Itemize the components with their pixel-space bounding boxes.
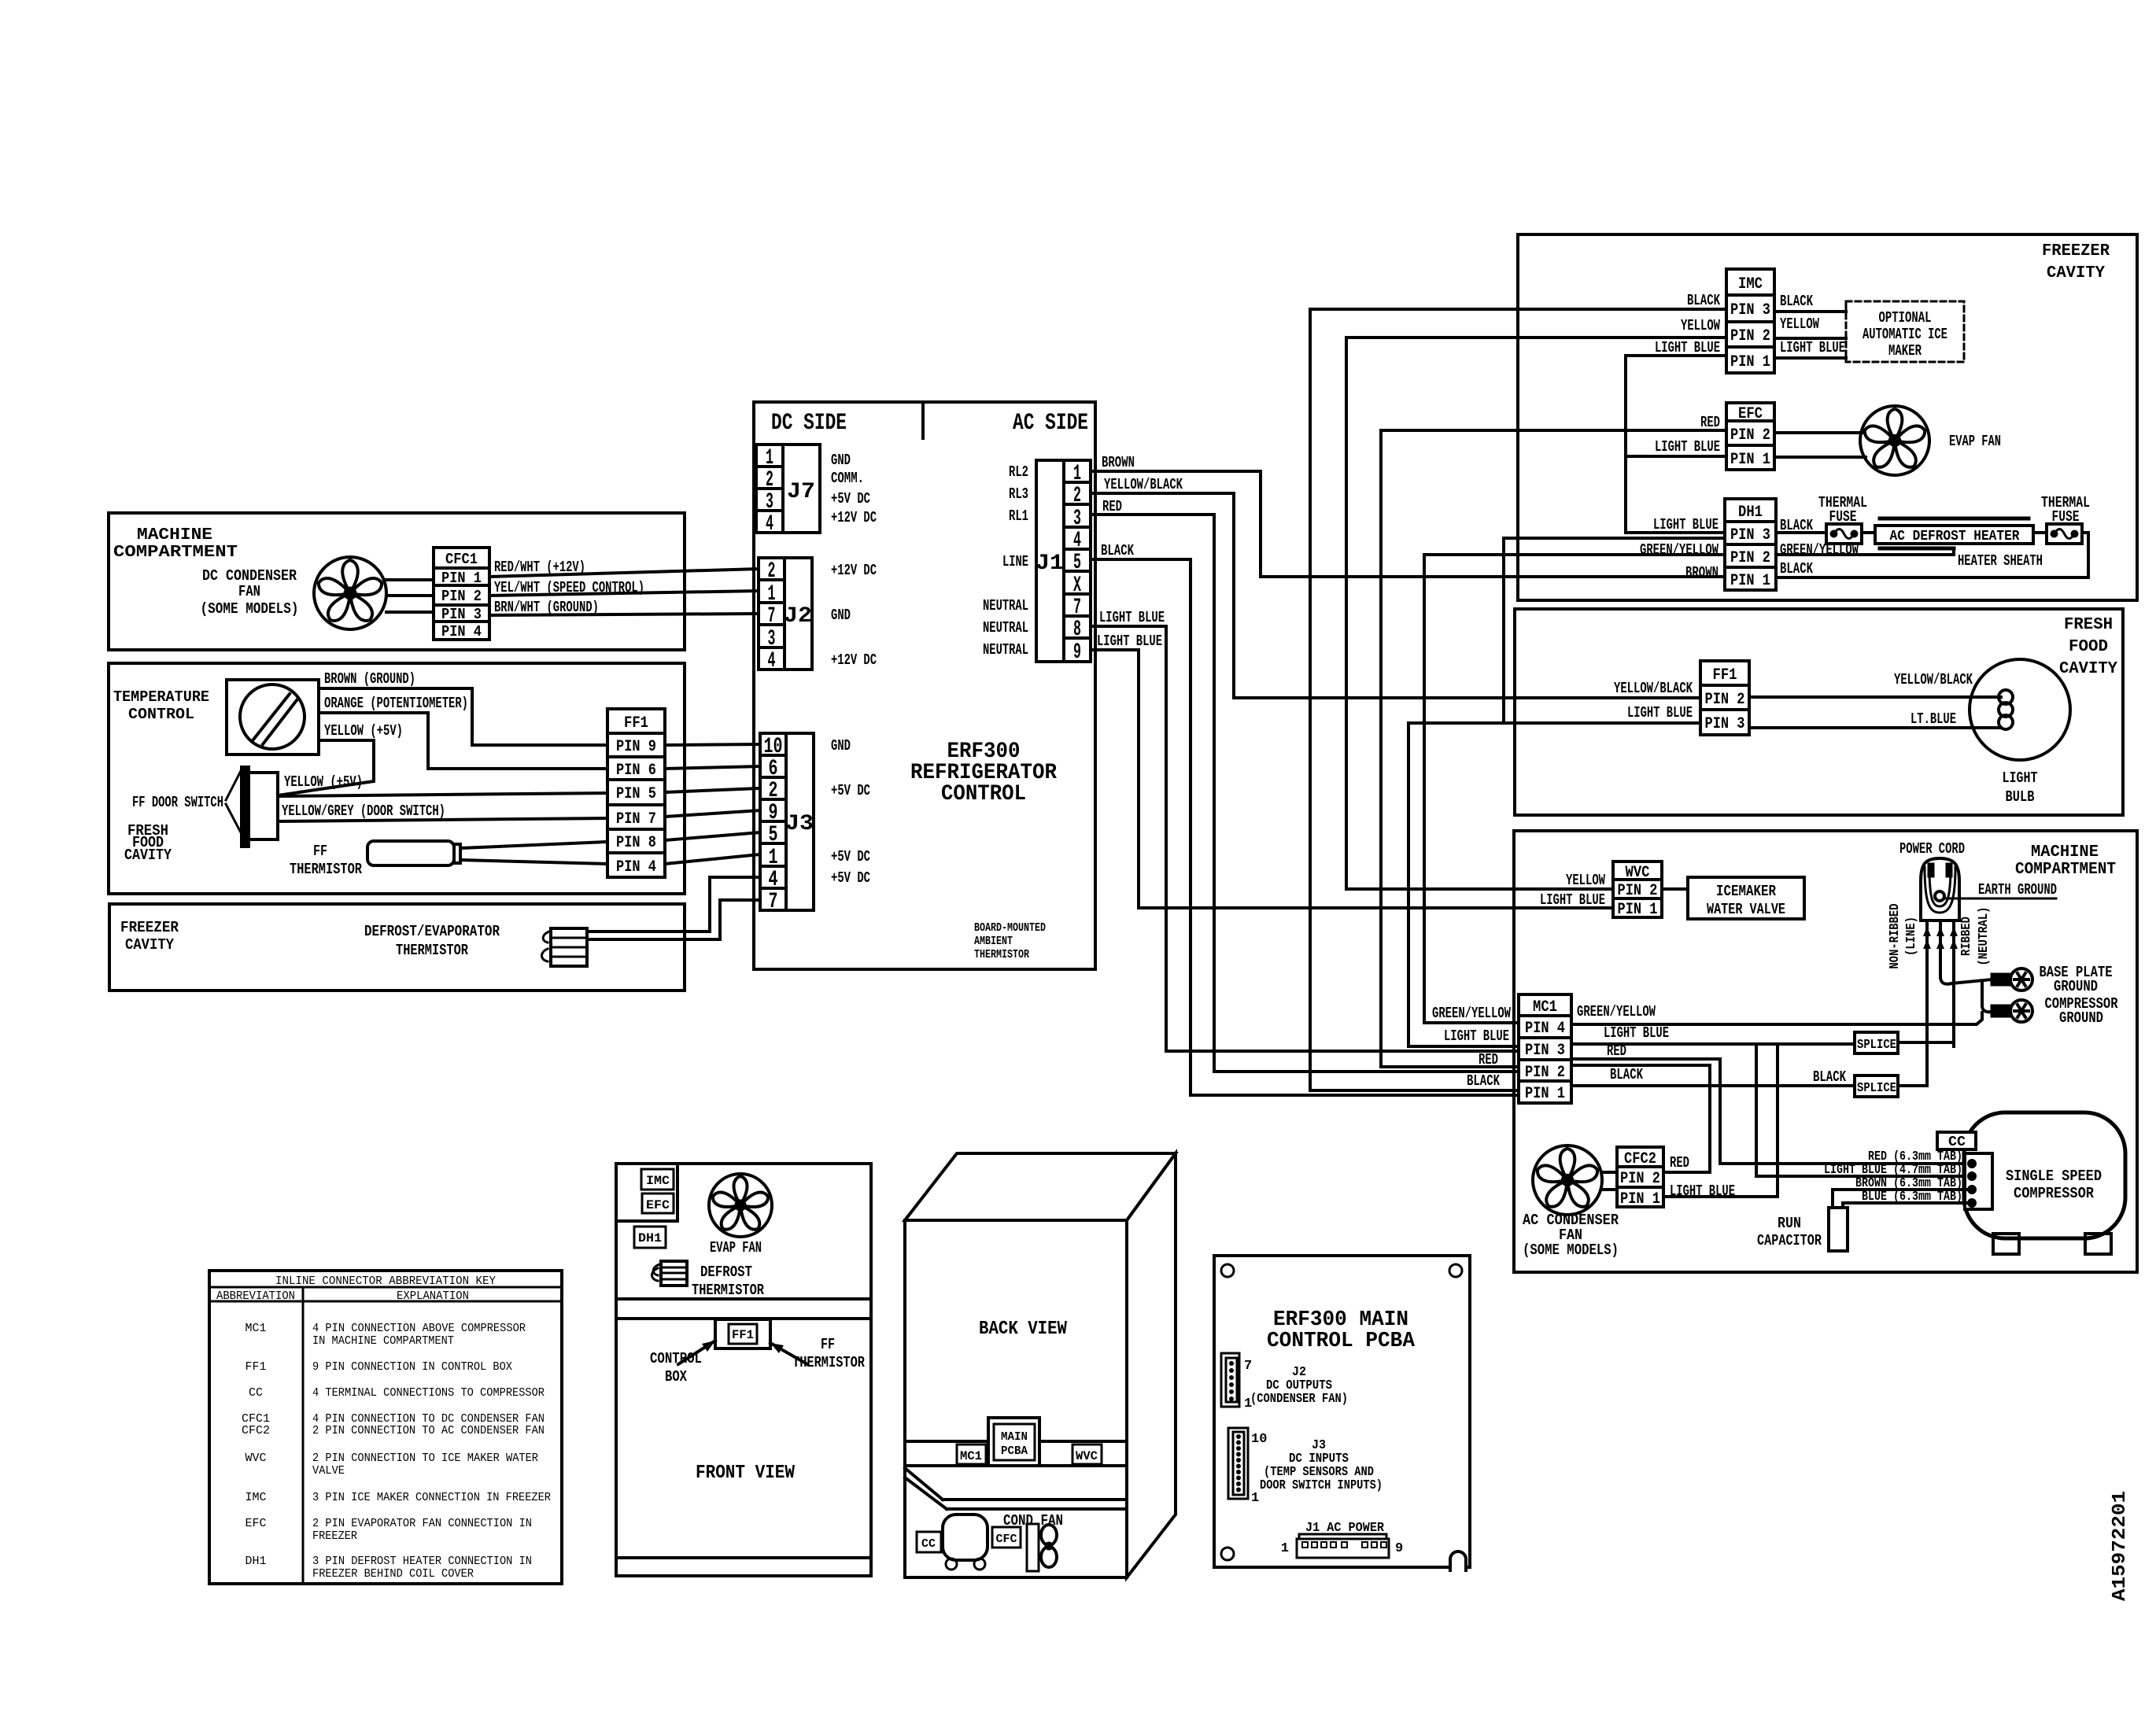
- svg-text:+5V DC: +5V DC: [831, 869, 870, 887]
- svg-text:LIGHT BLUE: LIGHT BLUE: [1653, 516, 1719, 533]
- svg-text:PIN 3: PIN 3: [1705, 715, 1745, 733]
- svg-text:PIN 1: PIN 1: [1730, 572, 1770, 590]
- svg-text:CC: CC: [249, 1386, 263, 1400]
- svg-text:1: 1: [1281, 1541, 1289, 1556]
- svg-text:IMC: IMC: [1738, 275, 1763, 293]
- svg-text:DH1: DH1: [638, 1231, 662, 1245]
- svg-text:YELLOW: YELLOW: [1681, 317, 1720, 334]
- svg-text:CFC1: CFC1: [445, 551, 478, 568]
- svg-text:LIGHT BLUE: LIGHT BLUE: [1097, 633, 1162, 650]
- svg-text:CC: CC: [921, 1537, 936, 1551]
- svg-text:PIN 4: PIN 4: [616, 858, 656, 876]
- svg-text:YELLOW (+5V): YELLOW (+5V): [284, 773, 363, 791]
- svg-text:PIN 3: PIN 3: [1730, 526, 1770, 544]
- svg-text:CAPACITOR: CAPACITOR: [1757, 1232, 1822, 1249]
- svg-text:THERMISTOR: THERMISTOR: [792, 1354, 865, 1371]
- svg-text:NEUTRAL: NEUTRAL: [983, 641, 1028, 659]
- svg-text:CONTROL PCBA: CONTROL PCBA: [1267, 1330, 1416, 1353]
- svg-text:3 PIN DEFROST HEATER CONNECTIO: 3 PIN DEFROST HEATER CONNECTION IN: [312, 1555, 532, 1568]
- svg-text:YELLOW/BLACK: YELLOW/BLACK: [1614, 680, 1693, 697]
- svg-text:(SOME MODELS): (SOME MODELS): [1523, 1241, 1619, 1259]
- svg-text:FRESH: FRESH: [2064, 616, 2113, 634]
- svg-text:DC CONDENSER: DC CONDENSER: [202, 567, 297, 585]
- svg-text:LIGHT BLUE: LIGHT BLUE: [1655, 438, 1720, 456]
- svg-text:EVAP FAN: EVAP FAN: [1949, 433, 2001, 450]
- svg-text:ERF300 MAIN: ERF300 MAIN: [1273, 1308, 1408, 1332]
- svg-text:COMPARTMENT: COMPARTMENT: [113, 544, 238, 562]
- svg-text:HEATER SHEATH: HEATER SHEATH: [1958, 552, 2043, 570]
- svg-text:PIN 8: PIN 8: [616, 834, 656, 852]
- svg-text:ORANGE (POTENTIOMETER): ORANGE (POTENTIOMETER): [324, 695, 468, 712]
- svg-text:FREEZER: FREEZER: [312, 1529, 357, 1543]
- svg-text:PIN 2: PIN 2: [1705, 691, 1745, 709]
- svg-text:FAN: FAN: [238, 583, 260, 600]
- svg-text:DEFROST/EVAPORATOR: DEFROST/EVAPORATOR: [364, 923, 500, 940]
- svg-text:YELLOW/GREY (DOOR SWITCH): YELLOW/GREY (DOOR SWITCH): [282, 802, 445, 820]
- svg-text:2 PIN EVAPORATOR FAN CONNECTIO: 2 PIN EVAPORATOR FAN CONNECTION IN: [312, 1517, 532, 1530]
- svg-text:4: 4: [768, 649, 776, 673]
- svg-text:LIGHT BLUE: LIGHT BLUE: [1540, 891, 1605, 909]
- svg-text:GREEN/YELLOW: GREEN/YELLOW: [1640, 541, 1719, 559]
- svg-text:PIN 7: PIN 7: [616, 810, 656, 828]
- svg-text:LIGHT BLUE: LIGHT BLUE: [1627, 704, 1693, 721]
- svg-text:EFC: EFC: [246, 1517, 267, 1530]
- svg-text:MAKER: MAKER: [1888, 342, 1922, 360]
- svg-text:EVAP FAN: EVAP FAN: [710, 1239, 762, 1256]
- svg-text:PIN 2: PIN 2: [441, 588, 482, 605]
- svg-text:BLACK: BLACK: [1101, 542, 1134, 559]
- svg-text:BLACK: BLACK: [1813, 1068, 1846, 1086]
- svg-text:AC DEFROST HEATER: AC DEFROST HEATER: [1890, 529, 2020, 544]
- svg-text:BLACK: BLACK: [1780, 560, 1813, 577]
- svg-text:CFC: CFC: [996, 1533, 1017, 1546]
- svg-text:RL3: RL3: [1009, 485, 1028, 503]
- svg-text:CONTROL: CONTROL: [650, 1350, 702, 1367]
- svg-text:MC1: MC1: [1533, 998, 1557, 1016]
- svg-text:PIN 1: PIN 1: [1620, 1190, 1660, 1208]
- svg-text:EXPLANATION: EXPLANATION: [397, 1289, 469, 1303]
- svg-text:PIN 2: PIN 2: [1730, 327, 1770, 345]
- svg-text:WATER VALVE: WATER VALVE: [1707, 901, 1785, 918]
- svg-text:DH1: DH1: [1738, 504, 1763, 522]
- svg-text:3 PIN ICE MAKER CONNECTION IN: 3 PIN ICE MAKER CONNECTION IN FREEZER: [312, 1491, 551, 1504]
- svg-text:WVC: WVC: [1076, 1449, 1098, 1463]
- svg-text:PIN 1: PIN 1: [1730, 353, 1770, 371]
- svg-text:A15972201: A15972201: [2110, 1491, 2131, 1601]
- svg-text:YELLOW (+5V): YELLOW (+5V): [324, 722, 403, 740]
- svg-text:LIGHT BLUE: LIGHT BLUE: [1444, 1027, 1509, 1045]
- svg-text:CONTROL: CONTROL: [128, 706, 194, 723]
- svg-text:DH1: DH1: [246, 1555, 267, 1568]
- svg-text:MC1: MC1: [960, 1449, 982, 1463]
- svg-text:RL2: RL2: [1009, 463, 1028, 481]
- svg-text:SPLICE: SPLICE: [1857, 1038, 1896, 1053]
- svg-text:J2: J2: [784, 604, 812, 629]
- svg-text:J3: J3: [785, 812, 814, 836]
- svg-text:THERMISTOR: THERMISTOR: [974, 948, 1029, 961]
- svg-text:BROWN: BROWN: [1102, 454, 1135, 471]
- svg-text:(NEUTRAL): (NEUTRAL): [1977, 907, 1992, 966]
- svg-text:FF: FF: [821, 1336, 835, 1353]
- svg-text:THERMISTOR: THERMISTOR: [692, 1282, 764, 1299]
- svg-text:EARTH GROUND: EARTH GROUND: [1978, 881, 2057, 898]
- svg-text:PIN 2: PIN 2: [1730, 426, 1770, 445]
- svg-text:THERMISTOR: THERMISTOR: [396, 942, 468, 959]
- svg-text:FF DOOR SWITCH: FF DOOR SWITCH: [132, 794, 223, 811]
- svg-text:2 PIN CONNECTION TO ICE MAKER: 2 PIN CONNECTION TO ICE MAKER WATER: [312, 1452, 538, 1465]
- svg-text:9: 9: [1395, 1541, 1403, 1556]
- svg-text:RED: RED: [1670, 1154, 1689, 1171]
- svg-text:COMPRESSOR: COMPRESSOR: [2014, 1185, 2095, 1202]
- svg-text:IMC: IMC: [246, 1491, 267, 1504]
- svg-text:RED: RED: [1700, 414, 1720, 431]
- svg-text:GND: GND: [831, 737, 851, 754]
- svg-text:DC SIDE: DC SIDE: [771, 410, 847, 437]
- svg-text:PIN 2: PIN 2: [1525, 1064, 1565, 1082]
- svg-text:FF1: FF1: [246, 1360, 267, 1374]
- svg-text:FREEZER: FREEZER: [2042, 242, 2110, 260]
- svg-text:BOARD-MOUNTED: BOARD-MOUNTED: [974, 921, 1046, 935]
- svg-text:RL1: RL1: [1009, 507, 1028, 525]
- svg-text:RED: RED: [1479, 1051, 1498, 1068]
- svg-text:LIGHT BLUE: LIGHT BLUE: [1099, 609, 1165, 626]
- svg-text:CC: CC: [1948, 1134, 1966, 1150]
- svg-text:FF1: FF1: [624, 714, 648, 732]
- svg-text:J1: J1: [1036, 552, 1064, 576]
- svg-text:PIN 9: PIN 9: [616, 738, 656, 756]
- svg-text:YELLOW: YELLOW: [1566, 872, 1605, 889]
- svg-text:COMPARTMENT: COMPARTMENT: [2015, 861, 2116, 879]
- svg-text:LT.BLUE: LT.BLUE: [1910, 710, 1956, 728]
- svg-text:BLACK: BLACK: [1780, 293, 1813, 310]
- svg-text:BACK VIEW: BACK VIEW: [979, 1319, 1068, 1340]
- svg-text:1: 1: [1251, 1491, 1259, 1506]
- svg-text:CAVITY: CAVITY: [2059, 660, 2117, 678]
- svg-text:4 TERMINAL CONNECTIONS TO COMP: 4 TERMINAL CONNECTIONS TO COMPRESSOR: [312, 1386, 545, 1400]
- svg-text:GREEN/YELLOW: GREEN/YELLOW: [1577, 1003, 1656, 1020]
- svg-text:PIN 4: PIN 4: [441, 623, 482, 640]
- svg-text:EFC: EFC: [646, 1198, 670, 1212]
- svg-text:POWER CORD: POWER CORD: [1899, 840, 1965, 858]
- svg-text:AUTOMATIC ICE: AUTOMATIC ICE: [1863, 326, 1947, 343]
- svg-text:CFC2: CFC2: [242, 1424, 270, 1437]
- svg-text:BOX: BOX: [665, 1368, 687, 1385]
- svg-text:GROUND: GROUND: [2054, 978, 2098, 995]
- svg-text:(CONDENSER FAN): (CONDENSER FAN): [1250, 1392, 1348, 1407]
- svg-text:+5V DC: +5V DC: [831, 782, 870, 799]
- svg-text:(LINE): (LINE): [1904, 917, 1919, 956]
- svg-text:PIN 4: PIN 4: [1525, 1020, 1565, 1038]
- svg-text:2 PIN CONNECTION TO AC CONDENS: 2 PIN CONNECTION TO AC CONDENSER FAN: [312, 1424, 545, 1437]
- svg-text:CONTROL: CONTROL: [941, 782, 1026, 806]
- svg-text:+12V DC: +12V DC: [831, 509, 877, 526]
- svg-text:PIN 2: PIN 2: [1620, 1170, 1660, 1188]
- svg-text:+5V DC: +5V DC: [831, 490, 870, 507]
- svg-text:7: 7: [1244, 1359, 1252, 1374]
- svg-text:AC SIDE: AC SIDE: [1013, 410, 1088, 437]
- svg-text:GND: GND: [831, 607, 851, 624]
- svg-text:10: 10: [1251, 1432, 1267, 1447]
- svg-text:PIN 5: PIN 5: [616, 785, 656, 803]
- svg-text:AMBIENT: AMBIENT: [974, 935, 1013, 948]
- svg-text:RUN: RUN: [1778, 1215, 1801, 1232]
- svg-text:NEUTRAL: NEUTRAL: [983, 619, 1028, 636]
- svg-text:TEMPERATURE: TEMPERATURE: [113, 688, 209, 706]
- svg-text:DOOR SWITCH INPUTS): DOOR SWITCH INPUTS): [1260, 1478, 1383, 1493]
- svg-text:THERMISTOR: THERMISTOR: [290, 861, 362, 878]
- svg-text:MAIN: MAIN: [1001, 1430, 1028, 1444]
- svg-text:PCBA: PCBA: [1001, 1444, 1028, 1458]
- svg-text:FF1: FF1: [732, 1328, 754, 1342]
- svg-text:CAVITY: CAVITY: [125, 936, 175, 954]
- svg-text:MC1: MC1: [246, 1322, 267, 1335]
- svg-text:4: 4: [766, 512, 773, 537]
- svg-text:FRONT VIEW: FRONT VIEW: [696, 1463, 796, 1484]
- svg-text:ICEMAKER: ICEMAKER: [1716, 883, 1776, 900]
- svg-text:SPLICE: SPLICE: [1857, 1081, 1896, 1096]
- svg-text:ABBREVIATION: ABBREVIATION: [216, 1289, 295, 1303]
- svg-text:PIN 3: PIN 3: [1525, 1042, 1565, 1060]
- svg-text:NON-RIBBED: NON-RIBBED: [1888, 904, 1903, 969]
- svg-text:MACHINE: MACHINE: [137, 526, 212, 544]
- svg-text:9: 9: [1073, 640, 1081, 665]
- svg-text:PIN 1: PIN 1: [1730, 451, 1770, 469]
- svg-text:RED: RED: [1102, 498, 1122, 515]
- svg-text:VALVE: VALVE: [312, 1464, 345, 1478]
- svg-text:SINGLE SPEED: SINGLE SPEED: [2006, 1168, 2102, 1185]
- svg-text:BROWN (GROUND): BROWN (GROUND): [324, 670, 415, 688]
- svg-text:PIN 1: PIN 1: [1618, 901, 1658, 919]
- svg-text:LINE: LINE: [1002, 553, 1028, 570]
- svg-text:FF: FF: [313, 843, 327, 860]
- svg-text:PIN 2: PIN 2: [1730, 549, 1770, 567]
- svg-text:BLACK: BLACK: [1610, 1066, 1643, 1083]
- svg-text:FOOD: FOOD: [2069, 638, 2108, 656]
- svg-text:LIGHT BLUE: LIGHT BLUE: [1604, 1024, 1669, 1042]
- svg-text:YELLOW: YELLOW: [1780, 315, 1819, 333]
- svg-text:PIN 3: PIN 3: [1730, 301, 1770, 319]
- svg-text:OPTIONAL: OPTIONAL: [1879, 309, 1932, 327]
- svg-text:LIGHT: LIGHT: [2003, 769, 2038, 787]
- svg-text:CAVITY: CAVITY: [124, 847, 172, 864]
- svg-text:FF1: FF1: [1713, 666, 1737, 684]
- svg-text:GROUND: GROUND: [2059, 1009, 2103, 1027]
- svg-text:LIGHT BLUE: LIGHT BLUE: [1655, 339, 1720, 356]
- svg-text:+5V DC: +5V DC: [831, 848, 870, 865]
- svg-text:4 PIN CONNECTION ABOVE COMPRES: 4 PIN CONNECTION ABOVE COMPRESSOR: [312, 1322, 526, 1335]
- svg-text:7: 7: [769, 890, 778, 914]
- svg-text:COMM.: COMM.: [831, 470, 864, 487]
- svg-text:FREEZER: FREEZER: [120, 919, 179, 936]
- svg-text:PIN 6: PIN 6: [616, 762, 656, 780]
- svg-text:J7: J7: [787, 480, 815, 504]
- svg-text:+12V DC: +12V DC: [831, 651, 877, 669]
- svg-text:YELLOW/BLACK: YELLOW/BLACK: [1104, 476, 1183, 493]
- svg-text:FREEZER BEHIND COIL COVER: FREEZER BEHIND COIL COVER: [312, 1567, 474, 1581]
- svg-text:BLACK: BLACK: [1687, 292, 1720, 309]
- svg-text:NEUTRAL: NEUTRAL: [983, 597, 1028, 614]
- svg-text:BULB: BULB: [2006, 788, 2035, 806]
- svg-text:INLINE CONNECTOR ABBREVIATION: INLINE CONNECTOR ABBREVIATION KEY: [275, 1275, 496, 1288]
- svg-text:BROWN: BROWN: [1685, 564, 1719, 581]
- svg-text:BLACK: BLACK: [1467, 1072, 1500, 1090]
- svg-text:IMC: IMC: [646, 1174, 670, 1188]
- svg-text:RIBBED: RIBBED: [1959, 917, 1974, 956]
- svg-text:CAVITY: CAVITY: [2047, 264, 2105, 282]
- svg-text:LIGHT BLUE: LIGHT BLUE: [1670, 1182, 1735, 1200]
- svg-text:WVC: WVC: [246, 1452, 267, 1465]
- svg-text:(SOME MODELS): (SOME MODELS): [201, 600, 299, 618]
- svg-text:+12V DC: +12V DC: [831, 562, 877, 579]
- svg-text:GND: GND: [831, 452, 851, 469]
- svg-text:MACHINE: MACHINE: [2031, 843, 2099, 861]
- svg-text:YELLOW/BLACK: YELLOW/BLACK: [1894, 671, 1973, 688]
- svg-text:DEFROST: DEFROST: [700, 1264, 752, 1281]
- svg-text:IN MACHINE COMPARTMENT: IN MACHINE COMPARTMENT: [312, 1334, 454, 1348]
- svg-text:LIGHT BLUE: LIGHT BLUE: [1780, 339, 1845, 356]
- svg-text:9 PIN CONNECTION IN CONTROL BO: 9 PIN CONNECTION IN CONTROL BOX: [312, 1360, 512, 1374]
- svg-text:GREEN/YELLOW: GREEN/YELLOW: [1432, 1005, 1511, 1022]
- svg-text:PIN 1: PIN 1: [1525, 1085, 1565, 1103]
